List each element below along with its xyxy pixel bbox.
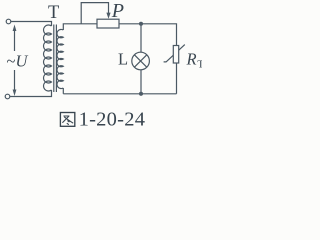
wire lamp branch bottom (140, 70, 142, 94)
wire rheostat slider loop (81, 3, 108, 24)
arrow ~U shaft bottom (14, 70, 16, 92)
wire secondary bottom lead (62, 88, 64, 94)
arrow ~U shaft top (14, 30, 16, 52)
transformer core (54, 25, 57, 93)
svg-text:P: P (111, 0, 124, 22)
transformer primary winding (43, 25, 51, 91)
thermistor RT body (173, 46, 178, 64)
svg-text:L: L (118, 49, 128, 68)
svg-text:~U: ~U (7, 52, 29, 71)
svg-text:T: T (48, 3, 59, 23)
wire top to right corner (119, 24, 177, 46)
wire primary top (11, 22, 52, 27)
terminal top-left (6, 19, 11, 24)
lamp L circle (132, 52, 150, 70)
caption hanzi "tu" drawn as strokes (60, 113, 74, 127)
arrowhead slider P (106, 13, 110, 19)
rheostat P body (97, 19, 119, 28)
thermistor diagonal (164, 45, 185, 62)
terminal bottom-left (5, 94, 10, 99)
wire primary bottom (10, 90, 52, 97)
arrowhead down (~U) (13, 90, 17, 97)
wire thermistor bottom lead (176, 63, 178, 94)
junction dot bottom (139, 92, 143, 96)
arrowhead up (~U) (13, 25, 17, 32)
svg-text:R: R (186, 49, 197, 68)
wire secondary top lead (63, 24, 97, 30)
wire lamp branch top (140, 24, 142, 52)
wire bottom (63, 93, 176, 95)
junction dot top (139, 22, 143, 26)
transformer secondary winding (57, 29, 63, 88)
svg-text:T: T (197, 59, 202, 71)
svg-text:1-20-24: 1-20-24 (79, 109, 146, 131)
lamp cross (134, 55, 146, 67)
